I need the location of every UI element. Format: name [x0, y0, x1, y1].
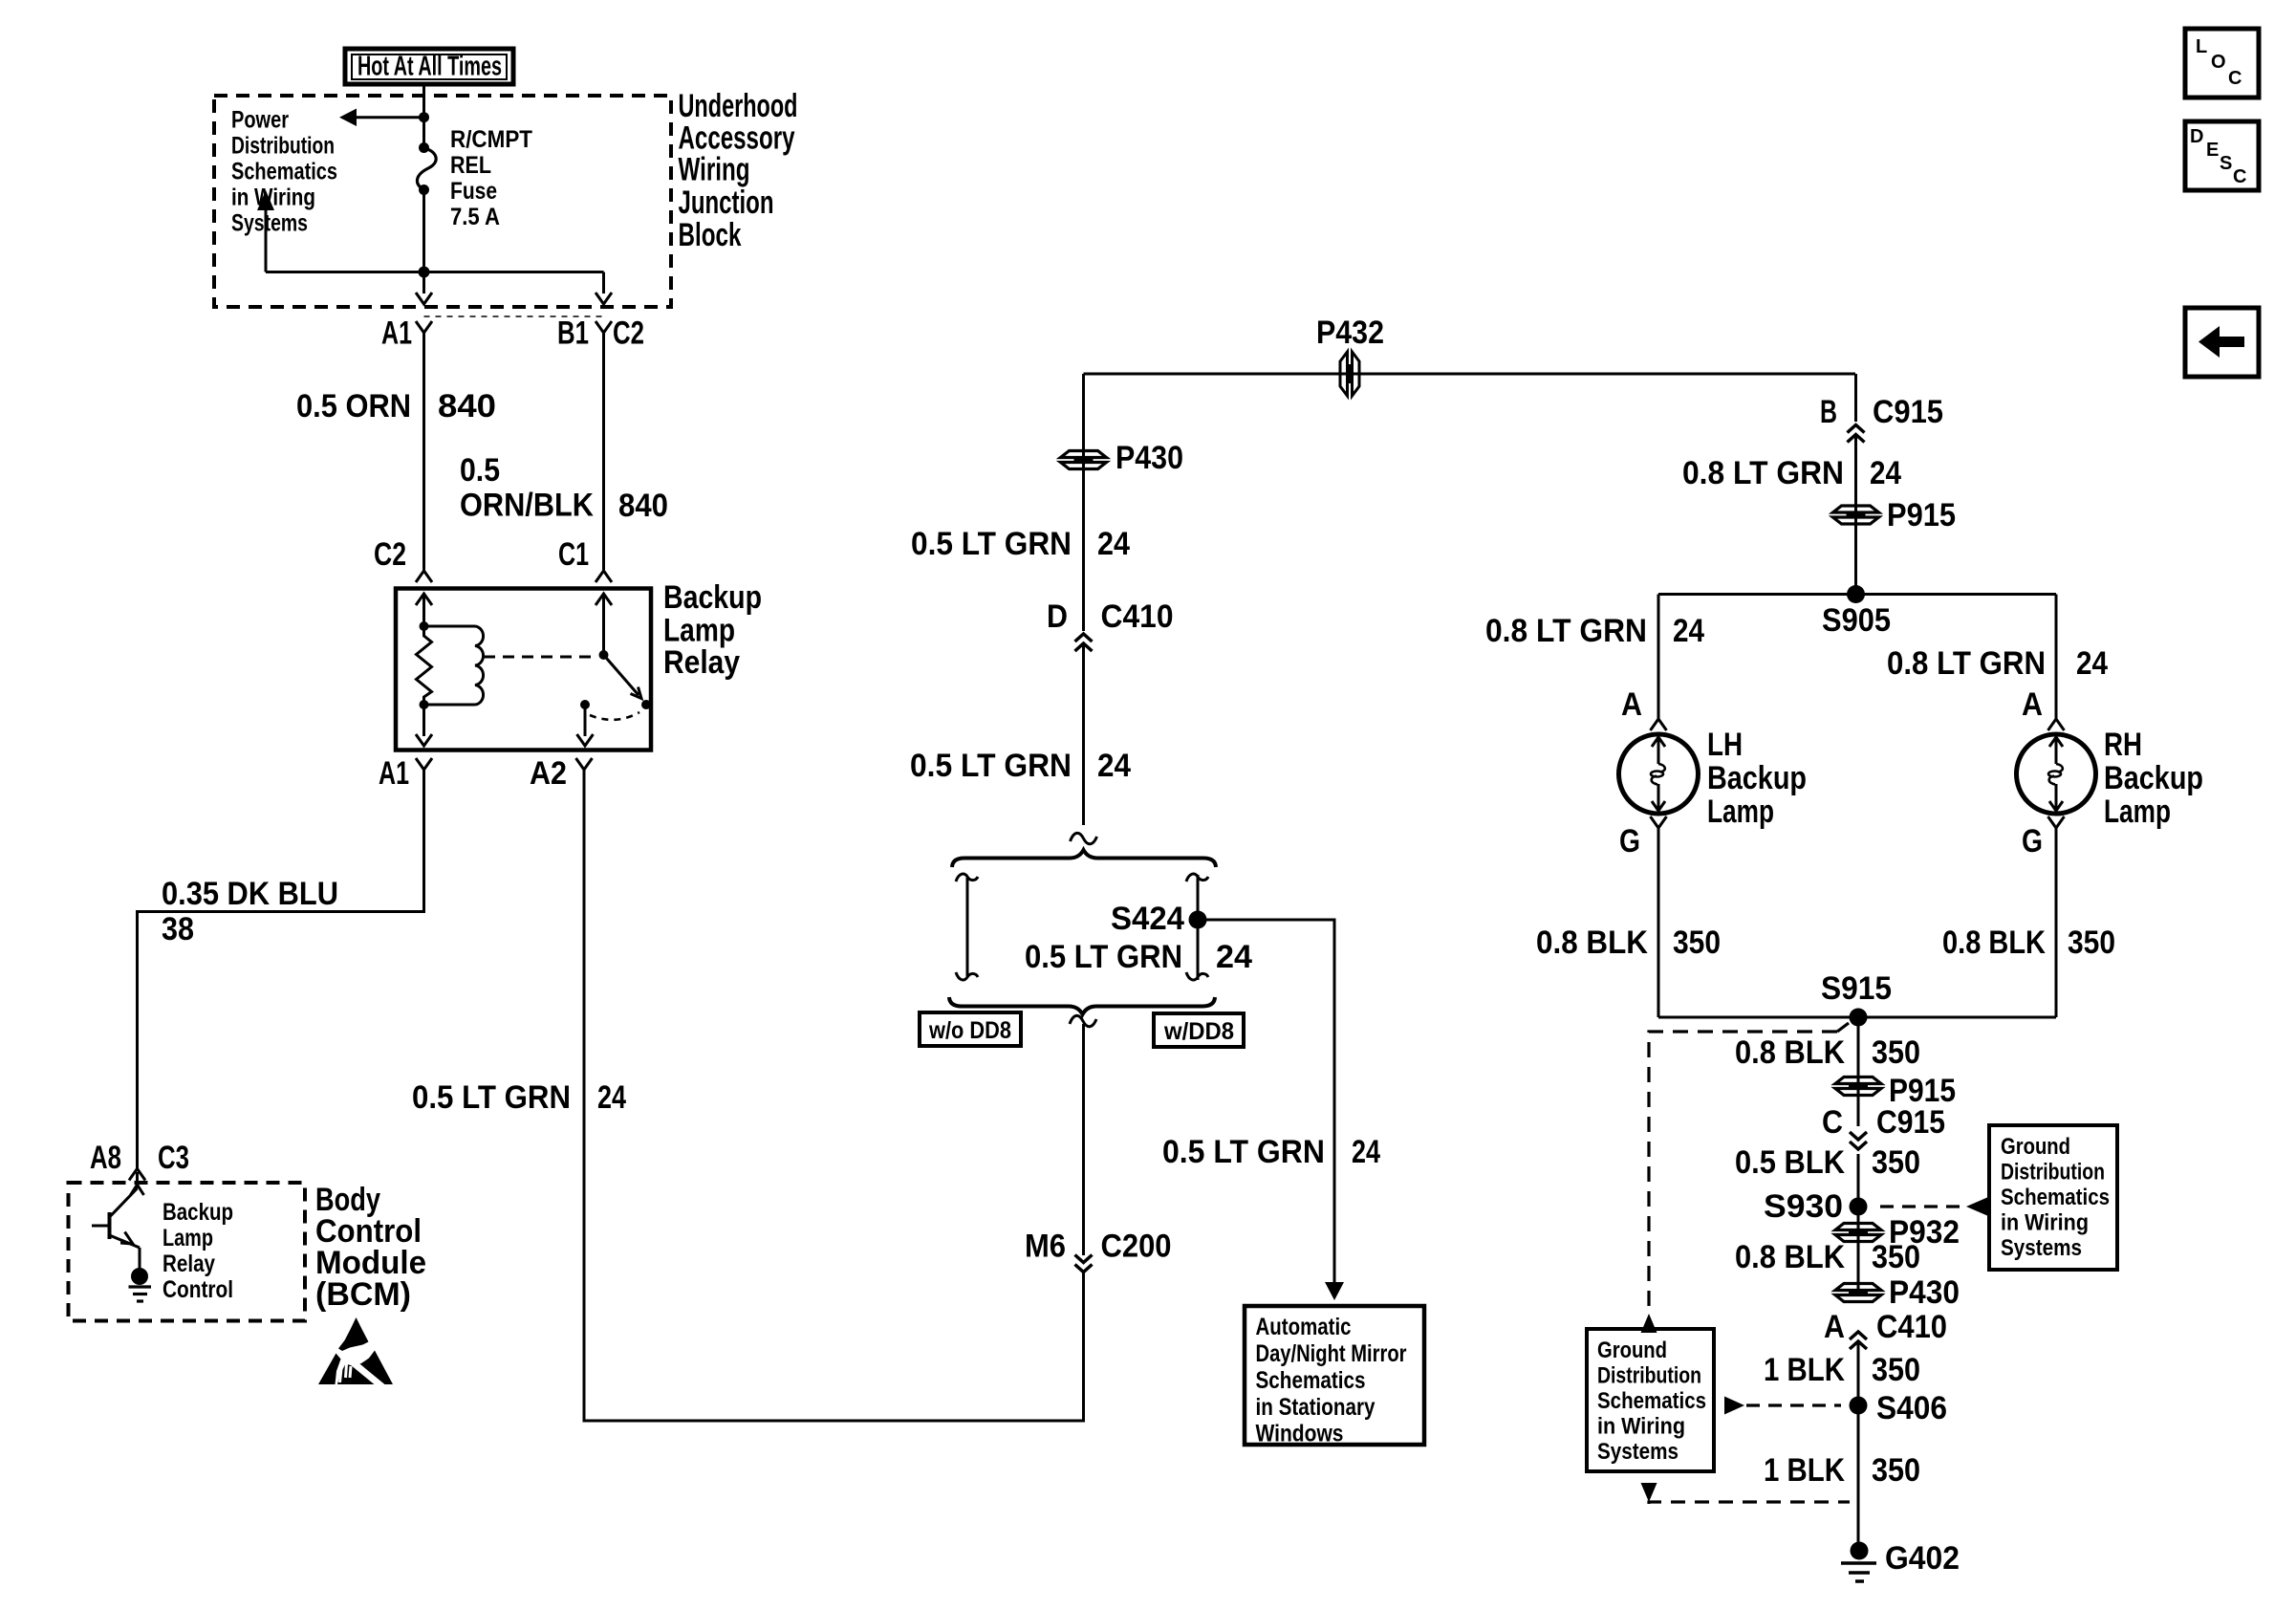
svg-text:24: 24	[2076, 645, 2108, 682]
connector P932	[1835, 1224, 1881, 1230]
svg-text:S: S	[2220, 153, 2232, 174]
svg-text:Backup: Backup	[162, 1199, 233, 1226]
wire: top horizontal to P432	[1084, 373, 1856, 376]
relay box: Backup Lamp Relay	[396, 589, 651, 751]
splice S406	[1850, 1397, 1868, 1415]
connector P430 (bottom)	[1835, 1284, 1881, 1291]
svg-text:0.5: 0.5	[460, 452, 500, 489]
node: emitter ground	[131, 1268, 148, 1285]
svg-text:Ground: Ground	[2001, 1134, 2070, 1160]
ground G402	[1851, 1542, 1869, 1560]
svg-text:Ground: Ground	[1597, 1338, 1667, 1363]
connector M6 / C200 chevrons	[1075, 1255, 1093, 1263]
box: Ground Distribution Schematics in Wiring Systems (left)	[1587, 1329, 1714, 1471]
ground symbol (BCM internal)	[129, 1285, 152, 1288]
svg-text:Schematics: Schematics	[1597, 1388, 1706, 1414]
arrow: A1 exit	[416, 293, 432, 304]
BCM box: Body Control Module (dashed)	[69, 1183, 306, 1321]
svg-text:Backup: Backup	[663, 579, 762, 616]
svg-text:Day/Night Mirror: Day/Night Mirror	[1256, 1340, 1407, 1367]
connector RH lamp pin G	[2048, 816, 2065, 828]
transistor Q (backup lamp relay driver)	[136, 1172, 139, 1188]
svg-text:C: C	[2233, 166, 2246, 187]
splice S424	[1189, 911, 1207, 929]
nav box LOC	[2185, 29, 2259, 98]
brace over option section (top)	[952, 850, 1216, 867]
wire: battery feed from Hot At All Times	[422, 84, 425, 148]
svg-text:Hot At All Times: Hot At All Times	[357, 52, 502, 82]
wire: below option section	[1082, 1024, 1085, 1255]
svg-text:C915: C915	[1876, 1104, 1945, 1141]
svg-text:0.8 LT GRN: 0.8 LT GRN	[1485, 613, 1647, 649]
svg-text:S424: S424	[1111, 901, 1184, 937]
arrow into mirror schematics box	[1325, 1282, 1344, 1300]
svg-text:C2: C2	[613, 315, 644, 352]
resistor (relay suppression)	[417, 626, 432, 705]
svg-text:350: 350	[1872, 1239, 1920, 1275]
wire: below C410	[1082, 645, 1085, 825]
RH Backup Lamp	[2017, 734, 2096, 814]
svg-text:840: 840	[438, 388, 496, 424]
svg-text:7.5 A: 7.5 A	[450, 204, 500, 230]
svg-text:A: A	[1621, 686, 1642, 723]
svg-text:24: 24	[597, 1079, 626, 1116]
wire: P932 to P430	[1857, 1232, 1860, 1293]
connector B / C915 chevrons	[1848, 425, 1865, 433]
svg-text:Schematics: Schematics	[1256, 1367, 1366, 1394]
svg-text:0.5 LT GRN: 0.5 LT GRN	[1025, 939, 1182, 975]
svg-text:Schematics: Schematics	[231, 159, 337, 185]
svg-text:w/DD8: w/DD8	[1163, 1018, 1234, 1045]
wire: S406 to G402	[1857, 1405, 1860, 1544]
svg-text:C410: C410	[1101, 598, 1174, 635]
connector P915 (bottom)	[1835, 1077, 1881, 1084]
wire: up-arrow branch to Power Distribution	[265, 209, 268, 272]
svg-text:Wiring: Wiring	[679, 152, 750, 188]
svg-text:24: 24	[1870, 455, 1901, 491]
connector D / C410 chevrons	[1075, 634, 1093, 642]
svg-text:C915: C915	[1873, 394, 1943, 430]
wire: branch to Power Distribution (left arrow)	[356, 116, 424, 119]
svg-text:350: 350	[1872, 1452, 1920, 1489]
connector P915 (top)	[1833, 506, 1879, 512]
svg-text:Junction: Junction	[679, 185, 774, 221]
svg-text:24: 24	[1673, 613, 1704, 649]
LH Backup Lamp	[1619, 734, 1699, 814]
svg-text:0.8 LT GRN: 0.8 LT GRN	[1887, 645, 2046, 682]
arrow: B1 exit	[596, 293, 612, 304]
svg-text:350: 350	[1872, 1352, 1920, 1388]
wire break squiggle (bottom)	[1070, 1015, 1096, 1026]
svg-text:1 BLK: 1 BLK	[1764, 1452, 1845, 1489]
wire: S915 down to P915	[1857, 1017, 1860, 1126]
svg-text:38: 38	[162, 911, 194, 947]
ESD sensitivity symbol	[338, 1317, 369, 1351]
svg-text:Lamp: Lamp	[2104, 794, 2171, 830]
relay coil	[424, 625, 476, 628]
svg-text:C2: C2	[374, 536, 406, 573]
svg-text:G402: G402	[1885, 1540, 1960, 1577]
connector line A1-B1 (dashed)	[424, 315, 604, 317]
splice S930	[1850, 1198, 1868, 1216]
connector RH lamp pin A	[2048, 719, 2065, 730]
connector at relay C2	[416, 571, 432, 582]
node: switch contact A2	[580, 700, 590, 709]
svg-text:Power: Power	[231, 107, 289, 134]
splice S905	[1847, 585, 1865, 603]
svg-text:P915: P915	[1887, 497, 1956, 533]
svg-text:D: D	[2190, 126, 2203, 147]
svg-text:Fuse: Fuse	[450, 178, 497, 205]
svg-text:Block: Block	[679, 217, 742, 253]
node: fuse output junction	[419, 267, 430, 278]
svg-text:C: C	[2228, 68, 2242, 89]
svg-text:Schematics: Schematics	[2001, 1185, 2110, 1210]
node: feed junction	[419, 112, 429, 122]
connector LH lamp pin G	[1651, 816, 1667, 828]
nav box back arrow	[2185, 308, 2259, 377]
svg-text:in Wiring: in Wiring	[231, 185, 315, 211]
svg-text:Relay: Relay	[663, 644, 740, 681]
svg-text:24: 24	[1216, 939, 1252, 975]
wire: C410 to S406	[1857, 1343, 1860, 1405]
wire: mid column down from corner	[1082, 374, 1085, 631]
svg-text:0.8 BLK: 0.8 BLK	[1735, 1034, 1845, 1071]
svg-text:S930: S930	[1764, 1188, 1843, 1225]
brace under option section (bottom)	[949, 997, 1215, 1014]
svg-text:Distribution: Distribution	[231, 133, 335, 160]
svg-text:D: D	[1047, 598, 1068, 635]
svg-text:Control: Control	[162, 1276, 233, 1303]
svg-text:Systems: Systems	[1597, 1439, 1679, 1465]
svg-text:O: O	[2211, 52, 2226, 73]
svg-text:Distribution: Distribution	[2001, 1160, 2105, 1186]
svg-text:Systems: Systems	[231, 210, 308, 237]
wire: lamp feed bus	[1658, 593, 2056, 596]
connector P430 (in-line)	[1061, 451, 1107, 458]
wire: 0.35 DK BLU 38 (relay A1 to BCM)	[138, 770, 424, 1169]
svg-text:w/o DD8: w/o DD8	[928, 1017, 1011, 1044]
svg-text:24: 24	[1097, 526, 1130, 562]
svg-text:E: E	[2206, 140, 2219, 161]
node: coil top	[420, 621, 429, 631]
bracket w/o DD8 (left)	[966, 878, 969, 976]
svg-text:(BCM): (BCM)	[315, 1276, 411, 1313]
svg-text:0.5 LT GRN: 0.5 LT GRN	[412, 1079, 571, 1116]
svg-text:Underhood: Underhood	[679, 88, 798, 124]
title box Hot At All Times	[345, 49, 513, 84]
svg-text:G: G	[2022, 823, 2043, 859]
wire: LH lamp feed	[1657, 595, 1660, 720]
wire: C915 to S930	[1857, 1154, 1860, 1207]
wire: horizontal distribution inside junction block	[266, 271, 604, 273]
connector A / C410 chevrons	[1850, 1332, 1867, 1339]
svg-text:Systems: Systems	[2001, 1235, 2082, 1261]
svg-text:A1: A1	[379, 755, 409, 792]
svg-text:B: B	[1820, 394, 1837, 430]
svg-text:Backup: Backup	[2104, 760, 2203, 796]
svg-text:C: C	[1822, 1104, 1843, 1141]
dashed path S915 to left ground box	[1649, 1032, 1837, 1312]
svg-text:24: 24	[1352, 1134, 1380, 1170]
svg-text:LH: LH	[1707, 727, 1743, 763]
svg-text:B1: B1	[557, 315, 589, 352]
dashed path left ground box to G402	[1641, 1483, 1657, 1502]
relay switch pin A2 arrow	[584, 705, 587, 736]
svg-text:0.5 LT GRN: 0.5 LT GRN	[910, 748, 1072, 784]
connector B1 (female half)	[596, 321, 612, 333]
svg-text:0.5 ORN: 0.5 ORN	[296, 388, 411, 424]
svg-text:0.35 DK BLU: 0.35 DK BLU	[162, 876, 338, 912]
connector at relay A2	[576, 758, 593, 770]
node: switch pivot	[599, 650, 609, 660]
relay coil pin A1 arrow	[422, 705, 425, 736]
connector at BCM C3	[129, 1169, 145, 1181]
relay switch pin C1 arrow	[596, 594, 612, 605]
relay coil pin C2 arrow	[416, 594, 432, 605]
wire: 0.5 ORN/BLK 840 (B1/C2 to relay C1)	[602, 333, 605, 570]
connector at relay C1	[596, 571, 612, 582]
connector A1 (female half)	[416, 321, 432, 333]
box: Automatic Day/Night Mirror Schematics	[1245, 1306, 1424, 1445]
svg-text:RH: RH	[2104, 727, 2142, 763]
svg-text:Lamp: Lamp	[1707, 794, 1774, 830]
svg-text:Automatic: Automatic	[1256, 1314, 1352, 1340]
connector C / C915 chevrons	[1850, 1132, 1867, 1140]
svg-text:0.5 LT GRN: 0.5 LT GRN	[911, 526, 1072, 562]
nav box DESC	[2185, 121, 2259, 190]
wire break squiggle (top)	[1071, 833, 1097, 843]
svg-text:840: 840	[618, 488, 668, 524]
svg-text:Lamp: Lamp	[663, 613, 735, 649]
svg-text:0.5 LT GRN: 0.5 LT GRN	[1162, 1134, 1325, 1170]
svg-text:0.8 BLK: 0.8 BLK	[1735, 1239, 1845, 1275]
svg-text:P430: P430	[1889, 1274, 1960, 1311]
dashed link coil to switch	[484, 656, 593, 659]
wire: ground bus	[1658, 1016, 2056, 1019]
svg-text:Windows: Windows	[1256, 1421, 1344, 1447]
svg-text:ORN/BLK: ORN/BLK	[460, 488, 594, 524]
svg-text:Lamp: Lamp	[162, 1225, 213, 1251]
svg-text:P430: P430	[1116, 440, 1183, 476]
wire: S930 to P932	[1857, 1207, 1860, 1232]
svg-text:0.8 BLK: 0.8 BLK	[1536, 925, 1648, 961]
svg-text:P432: P432	[1316, 315, 1384, 351]
svg-text:0.8 BLK: 0.8 BLK	[1942, 925, 2046, 961]
svg-text:350: 350	[1673, 925, 1721, 961]
wire: B to S905	[1854, 436, 1857, 595]
svg-text:A: A	[2022, 686, 2043, 723]
svg-text:C200: C200	[1101, 1229, 1172, 1265]
wire: S424 branch to mirror schematics	[1198, 920, 1334, 1284]
svg-text:A1: A1	[381, 315, 412, 352]
svg-text:Backup: Backup	[1707, 760, 1807, 796]
splice S915	[1850, 1009, 1868, 1027]
fuse R/CMPT REL 7.5A	[419, 142, 429, 153]
svg-text:A: A	[1824, 1309, 1845, 1345]
svg-text:L: L	[2196, 36, 2207, 57]
wire: right branch down to B1	[602, 272, 605, 294]
svg-text:S915: S915	[1821, 970, 1892, 1007]
svg-text:REL: REL	[450, 152, 491, 179]
svg-text:C1: C1	[558, 536, 589, 573]
svg-text:G: G	[1619, 823, 1640, 859]
svg-text:350: 350	[2068, 925, 2115, 961]
connector at relay A1	[416, 758, 432, 770]
wire: right trunk top (P432 to B C915)	[1854, 374, 1857, 422]
option box w/o DD8	[920, 1012, 1021, 1046]
wire: RH lamp ground leg	[2055, 828, 2058, 1017]
svg-text:24: 24	[1097, 748, 1131, 784]
svg-text:in Stationary: in Stationary	[1256, 1394, 1375, 1421]
wire: 0.5 LT GRN 24 (relay A2 to C200 branch)	[584, 770, 1084, 1421]
svg-text:S406: S406	[1876, 1390, 1947, 1426]
svg-text:M6: M6	[1025, 1229, 1066, 1265]
dashed arc switch travel	[590, 712, 639, 720]
svg-text:in Wiring: in Wiring	[2001, 1210, 2089, 1236]
svg-text:Distribution: Distribution	[1597, 1363, 1701, 1389]
relay switch blade	[604, 655, 639, 695]
wire: fuse output down	[422, 190, 425, 294]
svg-text:350: 350	[1872, 1034, 1920, 1071]
dashed link S406 to ground distribution box (left)	[1724, 1397, 1744, 1415]
junction block: Underhood Accessory Wiring Junction Block (dashed box)	[214, 96, 671, 307]
bracket w/ DD8 (right, wire through)	[1197, 875, 1200, 980]
svg-text:Relay: Relay	[162, 1251, 215, 1277]
wire: 0.5 ORN 840 (A1 to relay C2)	[422, 333, 425, 570]
svg-text:0.8 LT GRN: 0.8 LT GRN	[1682, 455, 1844, 491]
connector LH lamp pin A	[1651, 719, 1667, 730]
svg-text:0.5 BLK: 0.5 BLK	[1735, 1144, 1845, 1181]
svg-text:R/CMPT: R/CMPT	[450, 126, 532, 153]
dashed link S930 to ground distribution box	[1880, 1205, 1962, 1207]
node: switch contact	[641, 700, 651, 709]
svg-text:C3: C3	[158, 1140, 189, 1176]
option box w/DD8	[1154, 1013, 1244, 1047]
svg-text:A8: A8	[90, 1140, 121, 1176]
node: coil bottom	[420, 700, 429, 709]
svg-text:C410: C410	[1876, 1309, 1947, 1345]
connector P432 (in-line)	[1340, 352, 1348, 396]
svg-text:A2: A2	[530, 755, 567, 792]
box: Ground Distribution Schematics in Wiring Systems (right)	[1989, 1125, 2117, 1270]
wire: RH lamp feed	[2055, 595, 2058, 720]
svg-text:in Wiring: in Wiring	[1597, 1414, 1685, 1440]
svg-text:1 BLK: 1 BLK	[1764, 1352, 1845, 1388]
wire: LH lamp ground leg	[1657, 828, 1660, 1017]
svg-text:350: 350	[1872, 1144, 1920, 1181]
svg-text:S905: S905	[1822, 602, 1891, 639]
